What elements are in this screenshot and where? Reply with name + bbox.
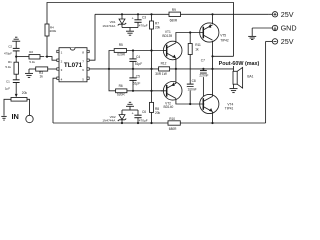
svg-text:1N4744A: 1N4744A xyxy=(102,24,116,28)
capacitor C7 220nF xyxy=(199,59,210,97)
wire zener top block bottom xyxy=(122,27,138,29)
potentiometer 20k body xyxy=(11,98,27,102)
node VT2 base line junctions xyxy=(132,90,153,92)
resistor R7 xyxy=(150,14,161,50)
wire R6 drive line (VT2 base) xyxy=(109,69,163,91)
svg-text:200k: 200k xyxy=(50,29,57,33)
svg-text:R6: R6 xyxy=(119,84,123,88)
svg-text:51pF: 51pF xyxy=(135,62,142,66)
speaker BA1 xyxy=(233,67,254,88)
wire +25V top rail xyxy=(95,13,269,15)
ground GND terminal xyxy=(248,28,256,40)
svg-text:BD139: BD139 xyxy=(162,34,172,38)
svg-text:680R: 680R xyxy=(170,18,178,22)
node R7 rail tee xyxy=(150,13,152,15)
wire VT1 collector to VT5 base xyxy=(176,33,203,43)
wire output bus xyxy=(88,68,234,70)
svg-text:1k: 1k xyxy=(40,75,44,79)
svg-text:R11: R11 xyxy=(195,43,201,47)
wire VT1/VT2 emitter column xyxy=(175,58,177,83)
node zener block bottom junctions xyxy=(121,122,139,124)
transistor VT2 BD140 xyxy=(161,82,182,109)
resistor R5 xyxy=(114,43,126,57)
wire VT4 emitter to -25V rail xyxy=(211,112,213,125)
svg-text:R5: R5 xyxy=(119,43,123,47)
svg-text:R2: R2 xyxy=(29,50,33,54)
node R8 rail tee xyxy=(150,122,152,124)
terminal +25V xyxy=(269,10,294,19)
wire regulated V+ feed to op-amp pin 7 xyxy=(88,14,96,60)
resistor R8 xyxy=(150,91,161,123)
capacitor C2 xyxy=(4,45,20,57)
connector IN jack xyxy=(12,112,34,123)
resistor R6 xyxy=(116,84,127,97)
transistor VT4 TIP41 xyxy=(200,94,234,113)
svg-text:1k: 1k xyxy=(195,48,199,52)
svg-text:C4: C4 xyxy=(136,55,140,59)
svg-text:620R: 620R xyxy=(117,53,125,57)
svg-text:5.1k: 5.1k xyxy=(29,60,35,64)
svg-text:BD140: BD140 xyxy=(164,105,174,109)
svg-text:R12: R12 xyxy=(161,62,167,66)
svg-text:C7: C7 xyxy=(201,59,205,63)
svg-text:C6: C6 xyxy=(142,110,146,114)
wire bias column R7-R8 crossing bus xyxy=(151,51,153,91)
capacitor C3 470uF xyxy=(132,14,148,27)
potentiometer 20k wiper xyxy=(15,83,28,98)
resistor R11 xyxy=(188,33,201,84)
svg-text:C8: C8 xyxy=(192,79,196,83)
svg-text:C3: C3 xyxy=(142,16,146,20)
diode VD2 zener 1N4744A xyxy=(102,110,126,123)
wire feedback top line xyxy=(47,3,234,72)
capacitor C4 xyxy=(129,51,142,69)
wire op-amp pin 4 V- feed xyxy=(53,78,57,123)
svg-text:VT5: VT5 xyxy=(220,34,226,38)
transistor VT5 TIP42 xyxy=(200,23,229,43)
resistor R12 30R 1W xyxy=(155,62,169,76)
svg-text:470µF: 470µF xyxy=(139,24,148,28)
op-amp pin tabs xyxy=(57,50,89,79)
diode VD1 zener 1N4744A xyxy=(102,14,126,27)
capacitor C6 470uF xyxy=(132,110,148,123)
capacitor C1 xyxy=(5,79,20,90)
resistor R2 xyxy=(29,50,40,64)
svg-text:GND: GND xyxy=(281,24,297,33)
capacitor C8 100nF xyxy=(187,79,198,104)
capacitor C5 xyxy=(129,69,140,91)
resistor R3 xyxy=(29,67,57,79)
terminal GND xyxy=(252,24,296,33)
wire pot left to ground xyxy=(4,99,11,116)
svg-text:20k: 20k xyxy=(155,111,161,115)
svg-text:1µF: 1µF xyxy=(5,87,10,91)
op-amp pin numbers xyxy=(61,51,85,82)
ground zener bottom block xyxy=(126,102,134,110)
wire input line to pin 2 xyxy=(16,57,57,61)
svg-text:+: + xyxy=(132,17,134,21)
wire pot right to connector xyxy=(27,99,30,115)
wire VT2 collector to VT4 base xyxy=(176,98,204,104)
svg-text:100nF: 100nF xyxy=(188,87,197,91)
ground C2 top-left xyxy=(12,37,20,48)
transistor VT1 BD139 xyxy=(162,30,182,60)
label Pout xyxy=(218,59,262,67)
wire -25V terminal riser xyxy=(265,41,267,123)
svg-text:20k: 20k xyxy=(22,91,28,95)
svg-text:IN: IN xyxy=(12,112,19,121)
svg-text:R1: R1 xyxy=(8,60,12,64)
svg-text:620R: 620R xyxy=(117,93,125,97)
resistor R4 feedback xyxy=(45,24,57,36)
svg-text:TIP42: TIP42 xyxy=(220,39,229,43)
svg-text:C5: C5 xyxy=(136,74,140,78)
node input junction xyxy=(15,56,48,58)
ground R3 xyxy=(25,69,33,77)
resistor R1 xyxy=(5,57,18,80)
svg-text:R10: R10 xyxy=(169,117,175,121)
node zener block top junctions xyxy=(121,13,139,15)
svg-text:R9: R9 xyxy=(172,8,176,12)
terminal -25V xyxy=(266,37,294,46)
svg-text:20k: 20k xyxy=(155,26,161,30)
wire R5 drive line (VT1 base) xyxy=(109,51,163,69)
svg-text:C1: C1 xyxy=(6,79,10,83)
svg-text:220nF: 220nF xyxy=(199,74,208,78)
node R11 top tee xyxy=(189,31,191,33)
svg-text:25V: 25V xyxy=(281,37,294,46)
svg-text:Pout-60W (max): Pout-60W (max) xyxy=(219,61,260,67)
wire VT5 collector / R11 line to output xyxy=(211,41,213,69)
node VT1 base line junctions xyxy=(132,49,153,51)
wire zener bottom block top xyxy=(122,109,138,111)
svg-text:C2: C2 xyxy=(8,45,12,49)
svg-text:25V: 25V xyxy=(281,10,294,19)
op-amp U1 TL071 DIP-8 body xyxy=(59,48,87,82)
ground input arrow xyxy=(1,116,6,120)
ground zener top block xyxy=(126,28,134,36)
node output bus junctions xyxy=(108,68,214,70)
svg-text:470pF: 470pF xyxy=(4,51,12,55)
wire -25V bottom rail xyxy=(53,122,266,124)
node C8 bottom tee xyxy=(189,103,191,105)
wire VT4 collector to output bus xyxy=(212,69,214,97)
svg-text:470µF: 470µF xyxy=(139,119,148,123)
ground speaker xyxy=(230,89,238,93)
svg-text:51pF: 51pF xyxy=(133,81,140,85)
svg-text:TIP41: TIP41 xyxy=(225,107,234,111)
svg-text:+: + xyxy=(132,111,134,115)
svg-text:TL071: TL071 xyxy=(64,62,83,69)
svg-text:BA1: BA1 xyxy=(247,75,253,79)
svg-text:680R: 680R xyxy=(169,127,177,131)
svg-text:5.1k: 5.1k xyxy=(5,65,11,69)
svg-text:1N4744A: 1N4744A xyxy=(102,119,116,123)
svg-text:30R 1W: 30R 1W xyxy=(155,72,167,76)
resistor R10 rail xyxy=(168,117,180,131)
wire VT5 emitter to +25V rail xyxy=(211,13,213,24)
resistor R9 rail xyxy=(169,8,181,23)
